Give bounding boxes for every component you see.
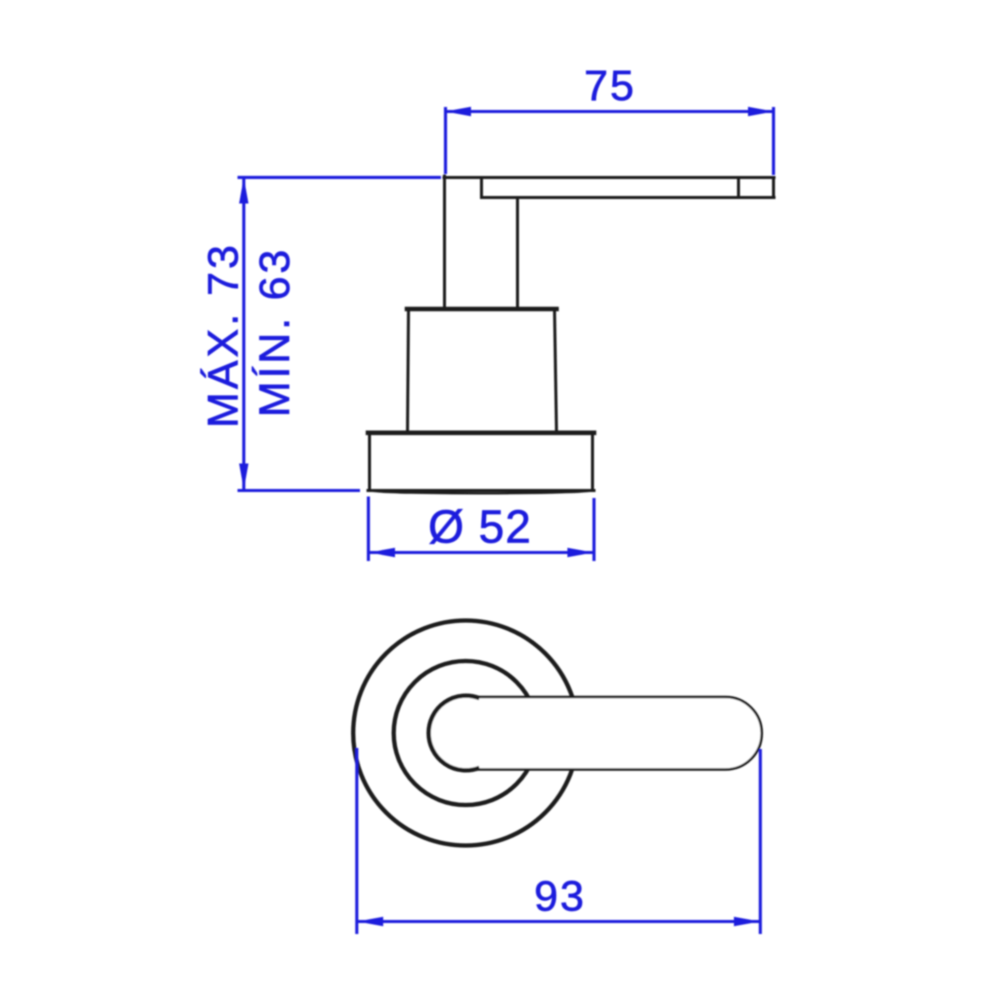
svg-text:Ø 52: Ø 52: [428, 501, 532, 553]
side view: lever right end cap: [772, 177, 775, 198]
dim 93: left arrowhead: [357, 917, 383, 926]
side view: stem left edge: [443, 176, 446, 308]
dim 52: right extension line: [592, 498, 595, 561]
dim 75: right extension line: [772, 107, 775, 175]
side view: lever-stem connector: [480, 178, 483, 198]
dim 93: left extension line: [355, 748, 358, 934]
top view: outer circle (escutcheon): [353, 621, 578, 846]
dim 52: left extension line: [367, 497, 370, 562]
dim 75: left arrowhead: [445, 107, 471, 116]
side view: lever end divider: [737, 177, 740, 198]
dim height: vertical dimension line: [242, 178, 245, 490]
dim 52: left arrowhead: [369, 548, 395, 557]
top view: lever mask fill: [430, 697, 762, 770]
dim height: top extension line: [238, 176, 442, 179]
dim 75: dimension line: [446, 110, 774, 113]
dim 75: right arrowhead: [748, 107, 774, 116]
side view: base right edge: [591, 433, 594, 491]
dim 52: dimension line: [368, 551, 594, 554]
svg-text:MÍN. 63: MÍN. 63: [251, 247, 299, 417]
top view: lever outline: [476, 697, 762, 770]
side view: lever bottom edge: [482, 196, 775, 199]
side view: body top edge: [407, 307, 557, 312]
side view: lever top edge: [444, 176, 774, 179]
side view: body right side: [555, 309, 557, 433]
dim height: top arrowhead: [239, 178, 248, 204]
svg-text:93: 93: [534, 873, 586, 921]
dim 93: dimension line: [357, 920, 761, 923]
dim height: bottom arrowhead: [239, 464, 248, 490]
side view: stem right edge: [516, 198, 519, 309]
dim 75: left extension line: [444, 107, 447, 174]
side view: base top edge: [368, 430, 594, 435]
dim 93: right extension line: [759, 749, 762, 934]
svg-text:75: 75: [584, 62, 636, 110]
dim height: bottom extension line: [238, 489, 361, 492]
side view: base bottom edge: [368, 489, 594, 492]
svg-text:MÁX. 73: MÁX. 73: [200, 242, 248, 428]
side view: body left side: [408, 309, 409, 433]
top view: middle circle (body): [394, 661, 538, 805]
dim 93: right arrowhead: [734, 917, 760, 926]
dim 52: right arrowhead: [567, 548, 593, 557]
top view: lever neck arc: [429, 696, 480, 771]
side view: base left edge: [368, 433, 371, 491]
side view: base bottom ellipse hint: [370, 491, 592, 494]
